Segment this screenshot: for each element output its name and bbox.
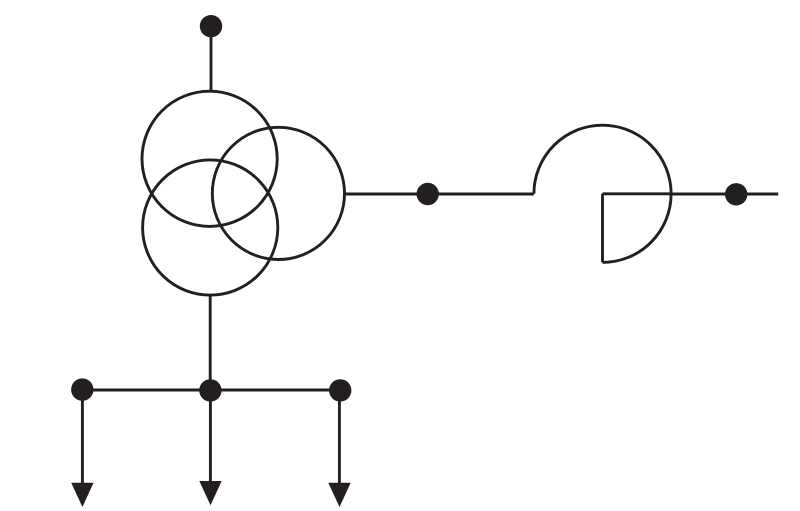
node: junction dot on secondary wire [417, 183, 439, 205]
wire: right feeder drop [338, 394, 341, 486]
wire: HV terminal down to transformer primary [210, 30, 213, 93]
transformer T1 secondary winding (right circle) [212, 127, 344, 259]
arrowhead: middle feeder load arrow [199, 481, 221, 505]
node: right feeder dot [329, 379, 351, 401]
arrowhead: right feeder load arrow [328, 483, 350, 507]
node: left feeder dot [71, 378, 93, 400]
wire: middle feeder drop [209, 394, 212, 484]
wire: transformer tertiary down to LV busbar [209, 295, 212, 390]
converter U1 horizontal radius (center to right edge) [603, 192, 672, 195]
transformer T1 primary winding (top circle) [142, 91, 277, 226]
node: HV supply terminal dot [200, 15, 222, 37]
node: output terminal dot [725, 183, 747, 205]
busbar: LV distribution bus [82, 389, 340, 392]
wire: left feeder drop [81, 394, 84, 486]
wire: converter to output terminal [671, 193, 778, 196]
wire: transformer secondary to converter [344, 193, 534, 196]
converter U1 vertical radius (center to bottom edge) [601, 194, 604, 263]
converter U1 arc (3/4 circle, open lower-left quadrant) [534, 125, 671, 262]
node: middle feeder dot [199, 379, 221, 401]
arrowhead: left feeder load arrow [71, 483, 93, 507]
transformer T1 tertiary winding (bottom circle) [143, 160, 278, 295]
